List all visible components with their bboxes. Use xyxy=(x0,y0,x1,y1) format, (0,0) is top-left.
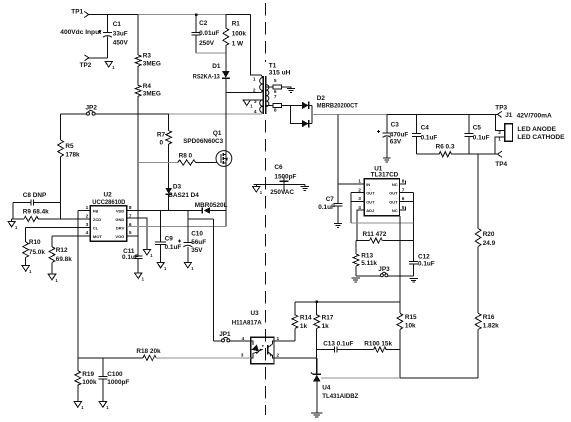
resistor R14 xyxy=(292,302,312,341)
ground (C11) xyxy=(135,273,145,282)
svg-text:R20: R20 xyxy=(483,231,495,238)
ic U2 UCC28610D box xyxy=(86,192,132,242)
wire U2 VDD pin8 xyxy=(127,209,169,211)
svg-text:0.1uF: 0.1uF xyxy=(318,204,335,211)
svg-text:R13: R13 xyxy=(361,252,373,259)
svg-text:1k: 1k xyxy=(322,323,330,330)
svg-text:C8 DNP: C8 DNP xyxy=(23,192,47,199)
svg-text:UCC28610D: UCC28610D xyxy=(92,199,125,206)
svg-text:0.1uF: 0.1uF xyxy=(122,254,139,261)
svg-text:2: 2 xyxy=(253,88,256,94)
wire U3 pin2 to R17 xyxy=(274,357,317,359)
diode D1 xyxy=(193,63,230,93)
svg-text:1: 1 xyxy=(358,179,361,185)
test point TP1 xyxy=(71,9,89,18)
ground (R12) xyxy=(48,274,58,283)
svg-text:R14: R14 xyxy=(300,314,312,321)
svg-text:C13 0.1uF: C13 0.1uF xyxy=(323,341,353,348)
resistor R20 xyxy=(475,154,495,313)
svg-text:R19: R19 xyxy=(82,371,94,378)
wire to T1 pin1 xyxy=(251,15,263,78)
svg-text:3MEG: 3MEG xyxy=(143,91,161,98)
svg-text:C10: C10 xyxy=(191,231,203,238)
resistor R4 xyxy=(135,66,161,256)
ground (R10) xyxy=(22,266,32,275)
svg-text:0: 0 xyxy=(160,140,164,147)
capacitor C11 xyxy=(122,248,143,273)
test point TP3 xyxy=(495,104,507,117)
svg-text:BAS21 D4: BAS21 D4 xyxy=(168,192,199,199)
svg-text:1000pF: 1000pF xyxy=(107,379,129,386)
test point TP2 xyxy=(80,55,108,69)
svg-text:MBRB20200CT: MBRB20200CT xyxy=(317,103,358,110)
svg-text:100k: 100k xyxy=(232,30,247,37)
capacitor C2 xyxy=(192,15,220,54)
isolation boundary (dashed) xyxy=(264,3,266,415)
svg-text:C12: C12 xyxy=(418,254,430,261)
diode D2b xyxy=(302,120,312,128)
svg-text:1: 1 xyxy=(253,76,256,82)
svg-text:DRV: DRV xyxy=(116,225,125,230)
U1 pin2/3 out bus xyxy=(351,193,364,224)
svg-text:0.1uF: 0.1uF xyxy=(473,135,490,142)
svg-text:LED ANODE: LED ANODE xyxy=(517,126,556,133)
svg-text:RS2KA-13: RS2KA-13 xyxy=(193,74,220,81)
svg-text:VGG: VGG xyxy=(115,234,124,239)
svg-text:178k: 178k xyxy=(65,152,80,159)
wire C2-R1 bottom xyxy=(196,52,226,54)
capacitor C4 xyxy=(412,114,437,154)
resistor R16 xyxy=(475,313,499,378)
capacitor C5 xyxy=(465,114,490,154)
svg-text:0.01uF: 0.01uF xyxy=(199,30,219,37)
wire secondary output bus y=114.4 xyxy=(312,113,498,115)
svg-text:8: 8 xyxy=(274,108,277,114)
U3 LED xyxy=(251,341,264,358)
svg-text:R5: R5 xyxy=(65,143,74,150)
svg-text:C2: C2 xyxy=(199,20,208,27)
wire U2 pin3 CL xyxy=(26,226,91,228)
op-amp U1 TL317CD box xyxy=(358,166,404,216)
svg-text:C7: C7 xyxy=(326,196,335,203)
svg-text:TP3: TP3 xyxy=(495,104,507,111)
svg-text:OUT: OUT xyxy=(366,191,375,196)
ground (U2 GND) xyxy=(143,249,153,258)
svg-text:MBR0520L: MBR0520L xyxy=(195,202,228,209)
svg-text:3MEG: 3MEG xyxy=(143,60,161,67)
svg-text:2: 2 xyxy=(498,130,501,136)
svg-text:7: 7 xyxy=(274,94,277,100)
svg-text:VDD: VDD xyxy=(116,208,125,213)
svg-text:OUT: OUT xyxy=(366,199,375,204)
diode D3 xyxy=(165,183,199,210)
svg-text:OUT: OUT xyxy=(389,199,398,204)
capacitor C9 xyxy=(155,210,181,262)
svg-text:6: 6 xyxy=(274,89,277,95)
svg-text:R1: R1 xyxy=(232,21,241,28)
capacitor C6 xyxy=(254,164,305,196)
ground (U4) xyxy=(311,413,322,417)
resistor R6 xyxy=(436,143,455,156)
capacitor C7 xyxy=(318,184,342,223)
svg-text:250V: 250V xyxy=(199,40,215,47)
diode D4 MBR0520L xyxy=(169,202,228,214)
resistor R19 xyxy=(75,358,97,402)
svg-text:100k: 100k xyxy=(82,379,97,386)
svg-text:U2: U2 xyxy=(104,192,113,199)
T1 pin8 bead xyxy=(266,103,302,107)
wire U4 ref y=378.2 xyxy=(321,377,478,379)
D2 labels xyxy=(317,95,358,110)
svg-text:470uF: 470uF xyxy=(390,131,409,138)
svg-text:TP4: TP4 xyxy=(495,161,507,168)
svg-text:63V: 63V xyxy=(390,139,402,146)
capacitor C1 xyxy=(60,15,128,58)
wire output bottom y=155.1 xyxy=(417,153,498,155)
wire T1 pin4 (primary return) xyxy=(169,113,263,115)
svg-text:250VAC: 250VAC xyxy=(270,189,294,196)
wire T1 pin2 xyxy=(226,91,263,93)
optocoupler U3 H11A817A xyxy=(232,310,280,364)
wire Q1 through xyxy=(225,151,227,167)
wire gate (gray) xyxy=(138,162,178,164)
wire U2 pin4 MOT xyxy=(52,235,90,237)
svg-text:69.8k: 69.8k xyxy=(56,256,72,263)
svg-text:R9 68.4k: R9 68.4k xyxy=(23,209,49,216)
svg-text:R100 15k: R100 15k xyxy=(364,341,392,348)
svg-text:33uF: 33uF xyxy=(113,30,128,37)
svg-text:10k: 10k xyxy=(405,323,416,330)
svg-text:C5: C5 xyxy=(473,125,482,132)
resistor R100 xyxy=(364,341,400,353)
svg-text:R7: R7 xyxy=(157,131,166,138)
svg-text:C9: C9 xyxy=(165,236,174,243)
wire FB vertical x=77.8 xyxy=(77,210,79,357)
ground (C12) xyxy=(410,278,418,282)
svg-text:56uF: 56uF xyxy=(191,239,206,246)
wire D2 lower branch xyxy=(291,105,302,123)
U1 pin7/6 out bus xyxy=(400,193,414,262)
resistor R13 xyxy=(353,241,377,276)
svg-text:C100: C100 xyxy=(107,371,123,378)
svg-text:5.11k: 5.11k xyxy=(361,260,377,267)
wire Q1 source xyxy=(225,166,227,226)
transformer T1 xyxy=(253,62,291,115)
resistor R8 xyxy=(178,152,219,165)
capacitor C8 xyxy=(13,192,61,219)
svg-text:400Vdc Input: 400Vdc Input xyxy=(60,29,102,36)
wire U1 corner down xyxy=(399,216,401,313)
jumper JP1 xyxy=(214,331,251,342)
svg-text:0.1uF: 0.1uF xyxy=(421,135,438,142)
svg-text:R6 0.3: R6 0.3 xyxy=(436,143,455,150)
U1 pin4 ADJ wire xyxy=(357,210,364,240)
junction dot C2 xyxy=(195,13,197,15)
capacitor C13 xyxy=(317,341,374,353)
svg-text:1.82k: 1.82k xyxy=(483,323,499,330)
capacitor C12 xyxy=(409,254,435,276)
svg-text:D2: D2 xyxy=(317,95,326,102)
svg-text:C6: C6 xyxy=(274,164,283,171)
svg-text:JP3: JP3 xyxy=(378,266,390,273)
resistor R7 xyxy=(157,114,172,188)
svg-text:NC: NC xyxy=(392,208,398,213)
diode D2a xyxy=(302,102,312,110)
svg-text:LED CATHODE: LED CATHODE xyxy=(517,134,565,141)
capacitor C100 xyxy=(98,358,129,402)
wire U3 pin3 (gray) xyxy=(246,357,251,359)
svg-text:35V: 35V xyxy=(191,247,203,254)
svg-text:TL317CD: TL317CD xyxy=(371,172,399,179)
svg-text:OUT: OUT xyxy=(389,191,398,196)
jumper JP3 xyxy=(356,266,414,277)
wire U1 IN from output bus xyxy=(338,114,364,184)
svg-text:1 W: 1 W xyxy=(232,40,244,47)
svg-text:GND: GND xyxy=(115,217,124,222)
svg-text:R10: R10 xyxy=(29,239,41,246)
ground (C6 left) xyxy=(253,185,263,195)
svg-text:2: 2 xyxy=(86,213,89,219)
svg-text:C4: C4 xyxy=(421,125,430,132)
resistor R3 xyxy=(135,15,161,68)
svg-text:C3: C3 xyxy=(391,121,400,128)
wire top bus y=14.5 xyxy=(89,14,251,16)
svg-text:R4: R4 xyxy=(143,83,152,90)
capacitor C3 xyxy=(377,114,408,157)
svg-text:J1: J1 xyxy=(505,112,513,119)
svg-text:R11 472: R11 472 xyxy=(363,231,387,238)
wire Q1 drain xyxy=(225,93,227,151)
T1 pin5 bead xyxy=(266,85,291,90)
resistor R17 xyxy=(314,302,334,375)
svg-text:D1: D1 xyxy=(212,63,221,70)
svg-text:U4: U4 xyxy=(322,385,331,392)
svg-text:NC: NC xyxy=(392,182,398,187)
svg-text:7: 7 xyxy=(129,213,132,219)
svg-text:42V/700mA: 42V/700mA xyxy=(517,112,552,119)
svg-text:SPD06N60C3: SPD06N60C3 xyxy=(183,138,223,145)
svg-text:5: 5 xyxy=(129,230,132,236)
svg-text:IN: IN xyxy=(366,182,370,187)
wire U1 out link (gray) xyxy=(351,222,414,224)
ground (C7) xyxy=(334,224,342,228)
ground (R9) xyxy=(8,219,18,230)
svg-text:0.1uF: 0.1uF xyxy=(418,261,435,268)
svg-text:MOT: MOT xyxy=(93,234,102,239)
svg-text:FB: FB xyxy=(93,208,98,213)
svg-text:R12: R12 xyxy=(56,247,68,254)
ground (R13) xyxy=(352,278,360,282)
svg-text:315 uH: 315 uH xyxy=(269,70,291,77)
svg-text:75.0k: 75.0k xyxy=(29,249,45,256)
svg-text:TP2: TP2 xyxy=(80,62,92,69)
resistor R10 xyxy=(23,227,46,265)
svg-text:0.1uF: 0.1uF xyxy=(165,244,182,251)
resistor R12 xyxy=(49,236,72,274)
junction dot R17 top xyxy=(316,301,318,303)
transistor Q1 SPD06N60C3 xyxy=(183,130,232,166)
ground (T1 pin5) xyxy=(287,89,295,93)
svg-text:TL431AIDBZ: TL431AIDBZ xyxy=(322,393,358,400)
capacitor C10 xyxy=(178,210,206,262)
svg-text:R18 20k: R18 20k xyxy=(136,348,161,355)
wire U2 GND pin7 xyxy=(127,218,147,250)
svg-text:JP1: JP1 xyxy=(219,331,231,338)
svg-text:ZCD: ZCD xyxy=(93,217,101,222)
svg-text:1k: 1k xyxy=(300,323,308,330)
wire fb top y=301.8 xyxy=(295,301,400,303)
svg-text:R3: R3 xyxy=(143,53,152,60)
svg-text:R8 0: R8 0 xyxy=(179,152,193,159)
ground (C3) xyxy=(383,158,391,162)
wire U2 DRV pin6 (gray) xyxy=(127,226,226,228)
svg-text:R16: R16 xyxy=(483,314,495,321)
wire D2 output join xyxy=(311,105,313,123)
svg-text:R15: R15 xyxy=(405,314,417,321)
resistor R9 xyxy=(12,209,91,222)
resistor R1 xyxy=(223,15,246,71)
svg-text:JP2: JP2 xyxy=(86,105,98,112)
ground (C6 right) xyxy=(301,185,309,191)
svg-text:C1: C1 xyxy=(113,21,122,28)
ground (C9) xyxy=(157,262,167,271)
svg-text:1500pF: 1500pF xyxy=(274,173,296,180)
resistor R18 xyxy=(78,348,246,360)
wire U3 pin1 to R14 xyxy=(274,340,295,342)
resistor R5 xyxy=(58,114,80,219)
jumper JP2 xyxy=(61,105,169,116)
resistor R11 xyxy=(356,231,414,243)
svg-text:T1: T1 xyxy=(269,62,277,69)
svg-text:24.9: 24.9 xyxy=(483,240,496,247)
ground (C10) xyxy=(184,262,194,271)
svg-text:TP1: TP1 xyxy=(71,9,83,16)
test point TP4 xyxy=(495,151,507,168)
svg-text:H11A817A: H11A817A xyxy=(232,320,262,327)
ground (C100) xyxy=(99,402,109,411)
svg-text:Q1: Q1 xyxy=(213,130,222,137)
connector J1 xyxy=(495,112,565,154)
svg-text:450V: 450V xyxy=(113,40,129,47)
svg-text:R17: R17 xyxy=(322,314,334,321)
ground (TP2/C1) xyxy=(105,61,115,70)
svg-text:D3: D3 xyxy=(173,183,182,190)
svg-text:ADJ: ADJ xyxy=(366,208,374,213)
svg-text:CL: CL xyxy=(93,225,99,230)
ground (R19) xyxy=(74,402,84,411)
U1 NC pin stubs xyxy=(400,181,406,211)
U3 phototransistor xyxy=(268,341,274,358)
svg-text:U3: U3 xyxy=(251,310,260,317)
svg-text:5: 5 xyxy=(274,78,277,84)
wire U2 VGG pin5 xyxy=(127,235,138,237)
shunt reg U4 TL431 xyxy=(311,358,358,413)
svg-text:1: 1 xyxy=(498,137,501,143)
wire VDD to JP1 drop xyxy=(188,219,214,341)
wire U2 pin1 FB stub xyxy=(78,209,91,211)
wire T1 pin3 to ground xyxy=(243,100,263,109)
resistor R15 xyxy=(397,313,417,378)
